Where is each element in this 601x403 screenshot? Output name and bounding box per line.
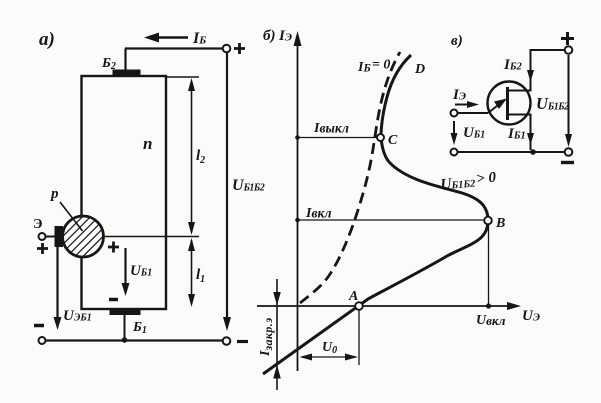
Uвкл drop line from B (476, 224, 506, 328)
p region (hatched emitter circle) (63, 216, 104, 257)
voltage arrow UБ1 (left) (451, 121, 486, 145)
terminal bottom left of в (451, 149, 458, 156)
base-1 lead wire (down to bottom wire) (508, 115, 531, 151)
bottom wire of в (458, 151, 565, 153)
point B (484, 216, 505, 231)
dimension l1 (188, 238, 205, 307)
wire emitter (46, 236, 57, 238)
svg-text:Uвкл: Uвкл (476, 313, 506, 328)
dashed curve IБ=0 (300, 52, 400, 303)
terminal Э (33, 217, 48, 254)
svg-text:B: B (495, 216, 505, 231)
label a) (39, 29, 55, 50)
solid curve lower branch (through A to B) (263, 221, 488, 375)
terminal Э (left) (451, 110, 458, 117)
svg-text:в): в) (451, 33, 463, 49)
contact Б2 (101, 56, 141, 75)
junction dot on bottom wire (122, 337, 128, 343)
terminal bottom left (39, 337, 46, 344)
bottom wire (46, 339, 223, 341)
svg-text:Iвыкл: Iвыкл (313, 121, 349, 137)
emitter wire with arrow (458, 99, 508, 114)
n region rectangle (82, 76, 167, 309)
svg-text:IБ = 0: IБ = 0 (357, 58, 390, 76)
svg-text:а): а) (39, 29, 55, 50)
svg-text:n: n (143, 134, 152, 153)
solid curve negative-resistance branch (B to C) (381, 138, 488, 221)
voltage arrow UБ1Б2 (right side of в) (536, 55, 572, 147)
label p with pointer (49, 186, 83, 231)
terminal − (bottom right of в) (561, 148, 574, 162)
contact Э (black bar) (55, 226, 64, 247)
Iвыкл level line (295, 121, 377, 140)
terminal + (top right of a) (223, 43, 245, 54)
voltage arrow UБ1Б2 (right side of a) (223, 53, 265, 332)
current arrow IЭ (452, 87, 479, 108)
current arrow IБ1 (507, 126, 534, 145)
terminal bottom right with minus (223, 337, 248, 345)
svg-text:б): б) (263, 28, 275, 44)
base-2 lead wire (to + terminal) (508, 50, 565, 91)
voltage arrow UБ1 (inside) (108, 242, 152, 300)
svg-text:C: C (388, 133, 398, 148)
svg-text:Iвкл: Iвкл (305, 206, 332, 222)
base bar (506, 87, 509, 120)
label б) IЭ (263, 28, 292, 44)
dimension U0 (300, 310, 360, 365)
point C (377, 133, 398, 148)
wire top (to + terminal) (125, 47, 223, 49)
junction dot (530, 149, 536, 155)
svg-text:Iзакр.э: Iзакр.э (258, 317, 275, 357)
terminal + (top right of в) (561, 32, 574, 54)
point A (348, 289, 363, 310)
wire vertical to B2 contact (124, 49, 126, 71)
current arrow IБ (144, 30, 206, 47)
svg-text:D: D (414, 62, 425, 77)
dimension Iзакр.э (258, 279, 281, 390)
dimension tick top (166, 76, 199, 78)
contact Б1 (110, 310, 147, 340)
dimension l2 (188, 78, 205, 235)
junction line (p-n boundary, to dimension tick) (100, 236, 199, 238)
x axis UЭ (257, 302, 540, 324)
y axis IЭ (294, 31, 302, 371)
svg-text:Э: Э (33, 217, 43, 232)
voltage arrow UЭБ1 (34, 247, 92, 330)
svg-text:p: p (49, 186, 59, 202)
current arrow IБ2 (503, 57, 534, 82)
transistor body circle (488, 82, 531, 125)
svg-text:A: A (348, 289, 358, 304)
Iвкл level line (295, 206, 484, 223)
solid curve C to D (381, 55, 411, 138)
